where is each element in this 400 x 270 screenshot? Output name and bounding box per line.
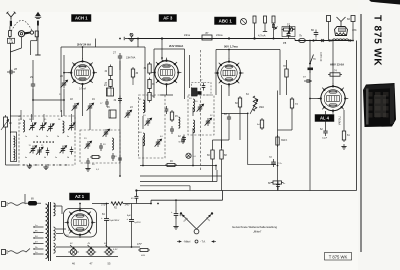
wire IF2 down	[192, 128, 194, 166]
jack pin 2	[263, 16, 267, 32]
dial lamp 55	[104, 245, 118, 266]
jack pin 3	[272, 16, 278, 40]
core coil 26	[107, 106, 116, 118]
wave switch V symbol	[180, 212, 213, 234]
wire contact right down	[31, 37, 37, 55]
resistor 36	[131, 67, 138, 85]
dial lamp 47	[86, 245, 96, 266]
tube ABC1	[215, 59, 244, 88]
tube AL4	[318, 83, 349, 114]
voltage selector wire	[24, 194, 26, 203]
trimmer 29a	[103, 129, 111, 137]
svg-text:T 875 WK: T 875 WK	[372, 15, 383, 66]
wire plate AL4	[332, 84, 334, 87]
svg-text:1MΩ: 1MΩ	[259, 107, 264, 109]
junction	[253, 37, 255, 39]
resistor 34	[105, 65, 113, 78]
svg-text:„Mittel“: „Mittel“	[253, 230, 262, 234]
junction	[321, 39, 323, 41]
svg-text:1b: 1b	[36, 136, 38, 138]
svg-text:H.B.: H.B.	[141, 255, 146, 257]
coil 53	[189, 98, 195, 112]
label 21	[59, 94, 62, 96]
series capacitor 28	[7, 67, 17, 74]
wire	[343, 110, 345, 129]
wire AL4 grid	[309, 98, 320, 100]
legend text	[232, 225, 277, 234]
trimmer 14	[29, 119, 37, 131]
svg-text:6,3V: 6,3V	[113, 249, 118, 251]
svg-text:5b: 5b	[67, 157, 69, 159]
wire	[192, 107, 194, 116]
trimmer 16a	[68, 122, 76, 130]
wire antenna down-lead	[9, 36, 12, 133]
svg-text:13H/7HA: 13H/7HA	[126, 57, 136, 60]
wires into box	[21, 110, 72, 122]
detector cluster	[192, 80, 212, 96]
wire	[221, 161, 223, 191]
resistor 6P	[268, 181, 286, 185]
decoupling network 57/58	[282, 23, 296, 41]
separator rule	[360, 14, 362, 252]
coupling cap 32	[114, 96, 123, 164]
label 24ma	[184, 33, 223, 37]
resistor 71	[276, 135, 288, 147]
svg-text:ACH 1: ACH 1	[75, 16, 88, 21]
choke 76 on rail	[299, 34, 306, 43]
wire ABC1 left pin	[216, 72, 218, 74]
wire	[309, 81, 311, 191]
HT rail	[128, 38, 283, 40]
ground symbol on rail	[124, 33, 139, 47]
svg-text:0,2A: 0,2A	[9, 41, 14, 44]
wire	[212, 161, 214, 182]
wire	[309, 41, 311, 82]
svg-text:70μF/385V: 70μF/385V	[109, 220, 120, 222]
main box bottom edge	[192, 41, 357, 191]
transformer primary	[46, 204, 48, 259]
svg-text:W.Mod: W.Mod	[179, 142, 185, 144]
label 47HA	[258, 33, 266, 37]
resistor 73	[290, 97, 298, 110]
wire	[142, 116, 144, 129]
wire	[206, 50, 208, 96]
wire AF3 top link	[162, 58, 167, 61]
switch contact dots	[33, 141, 54, 143]
wire ABC1 k	[221, 85, 223, 148]
wire	[325, 111, 327, 128]
svg-text:6P: 6P	[268, 182, 271, 185]
resistor 68	[220, 148, 228, 161]
diode lamp symbol	[186, 153, 196, 158]
wire IF1 down	[142, 137, 144, 166]
shield box ACH1 stage	[61, 47, 145, 112]
shield box AF3 stage	[154, 49, 190, 99]
title box T 875 WK	[325, 253, 352, 261]
mains plug 2	[2, 250, 9, 255]
junction X mark	[321, 39, 324, 42]
coil L1	[14, 136, 15, 147]
wire	[213, 122, 230, 140]
wave switch scale	[177, 240, 216, 244]
junction	[161, 37, 163, 39]
mains lead wavy	[8, 203, 26, 206]
cap L2	[179, 135, 186, 144]
label ACH 1	[72, 15, 92, 22]
trimmer 12	[36, 145, 44, 155]
antenna lead blob	[10, 21, 12, 27]
wire rail to ABC1	[228, 50, 230, 60]
tube AF3	[152, 58, 182, 88]
switch 79	[309, 55, 316, 65]
wire	[63, 89, 65, 117]
heater rail bottom	[56, 256, 118, 258]
tube AZ1	[65, 207, 96, 238]
label ABC 1	[215, 17, 237, 25]
dashed box IF input	[80, 130, 120, 163]
wire	[63, 55, 65, 81]
grid stopper cluster	[257, 118, 264, 130]
svg-text:50V 1,7ma: 50V 1,7ma	[224, 45, 238, 49]
label 24ma pos	[0, 0, 1, 1]
label F4TV vertical	[319, 52, 322, 62]
components in IF input box	[84, 138, 115, 161]
svg-text:Gezeichnete Wellenschaltenstel: Gezeichnete Wellenschaltenstellung	[232, 225, 277, 229]
wire avc	[140, 165, 216, 167]
shielded coil det	[192, 88, 202, 96]
wire rail to ACH1	[82, 47, 84, 59]
svg-text:41R: 41R	[65, 235, 69, 237]
b+ riser	[151, 191, 223, 204]
smoothing cap 84	[101, 204, 120, 248]
wire ABC1 down	[228, 84, 230, 96]
cap 42a	[165, 106, 169, 114]
jack pin 1	[253, 16, 256, 40]
speaker terminal right	[349, 39, 354, 42]
svg-text:13%: 13%	[352, 30, 357, 32]
wire left column	[32, 60, 34, 81]
tube ACH1	[68, 58, 97, 90]
svg-text:2b: 2b	[57, 136, 59, 138]
wire	[32, 89, 65, 120]
label 2HV 13 6A	[352, 30, 357, 32]
label P8	[283, 41, 287, 45]
resistor 46	[165, 160, 177, 167]
svg-text:4,7mA: 4,7mA	[258, 33, 266, 37]
ground cap mid	[276, 182, 280, 191]
long vertical wire	[277, 91, 279, 191]
potentiometer 10	[1, 115, 12, 130]
transformer secondary LT1	[54, 227, 56, 241]
wire top az1	[80, 204, 151, 211]
svg-text:-Mittel: -Mittel	[184, 241, 191, 244]
wire	[213, 140, 222, 148]
wire rail to AF3	[161, 39, 163, 59]
svg-text:F4TV 40: F4TV 40	[319, 52, 322, 62]
wire ABC1 L path	[222, 113, 277, 165]
coil 47	[179, 117, 180, 128]
trimmer 12a	[60, 145, 68, 153]
AZ1 mount plate	[64, 209, 97, 238]
svg-text:P8: P8	[283, 41, 287, 45]
mains lead 2 wavy	[8, 249, 30, 254]
transformer secondary HT	[54, 203, 56, 216]
trimmer 50	[195, 101, 204, 112]
nested return wires	[140, 170, 217, 191]
capacitor 62	[320, 128, 328, 140]
heater taps	[54, 246, 57, 248]
svg-text:HRV 13 6A: HRV 13 6A	[330, 63, 344, 67]
trimmer 23	[125, 106, 134, 118]
core coil 24	[104, 84, 114, 96]
trimmer 15a	[47, 123, 55, 131]
wire AF3 left	[153, 72, 156, 74]
label 375V	[101, 202, 107, 206]
resistor 38	[148, 91, 155, 103]
wire	[239, 90, 241, 96]
transformer secondary LT2	[54, 243, 56, 253]
coil 13	[19, 118, 25, 132]
phono jack	[241, 19, 247, 25]
svg-text:24ma: 24ma	[184, 34, 191, 37]
capacitor 80	[311, 28, 318, 41]
resistor 66	[207, 148, 214, 161]
trimmer 44	[155, 136, 164, 147]
svg-text:AF 3: AF 3	[163, 16, 173, 21]
fuse 6A box	[8, 38, 15, 44]
speaker cone symbol	[337, 17, 351, 26]
coil 16	[58, 119, 64, 133]
label 2HV 24 HA	[77, 43, 91, 47]
main bus left extension	[135, 189, 192, 191]
switch S1 contact left	[9, 26, 12, 36]
wire	[55, 245, 57, 247]
capacitor 42	[178, 135, 185, 144]
IF transformer 1 dashed box	[139, 95, 166, 158]
label 50V 1.7ma	[224, 45, 238, 49]
trimmer 15	[39, 119, 47, 131]
coil 41	[139, 99, 145, 113]
label AL 4	[315, 115, 334, 122]
resistor 60	[235, 96, 242, 109]
loudspeaker photo	[363, 83, 396, 127]
capacitor 29	[30, 75, 35, 100]
earth electrode arrow	[35, 12, 41, 19]
svg-text:AL 4: AL 4	[320, 116, 330, 121]
coil L2	[14, 149, 15, 160]
svg-text:8μF: 8μF	[127, 215, 131, 217]
trimmer 18	[70, 98, 79, 111]
jack 76 left	[327, 16, 331, 41]
electrolytic 44	[171, 199, 184, 229]
dashed box wave band coils	[19, 116, 75, 165]
wire ACH1 right	[94, 72, 111, 74]
ground 31a	[27, 164, 32, 169]
junction	[228, 37, 230, 39]
wave switch labels	[183, 217, 211, 223]
svg-text:ABC 1: ABC 1	[219, 18, 233, 23]
speaker pot	[335, 27, 348, 36]
svg-text:- T.A.: - T.A.	[200, 241, 206, 244]
filter resistor R2	[111, 202, 131, 210]
shield dashed vertical	[200, 50, 202, 170]
trimmer 19	[87, 98, 96, 111]
IF transformer 2 dashed box	[188, 95, 214, 135]
wire B+	[92, 222, 104, 224]
wire	[278, 108, 293, 130]
wire AL4 plate	[332, 41, 334, 84]
svg-text:24ma: 24ma	[216, 33, 223, 37]
earth lead blob	[35, 21, 40, 55]
trimmer 11	[29, 145, 38, 154]
svg-text:4b: 4b	[44, 157, 46, 159]
wire AL4 left	[310, 81, 321, 99]
second antenna lead	[9, 50, 11, 110]
svg-text:7Y10kA: 7Y10kA	[338, 116, 342, 125]
resistor 87 on rail	[202, 31, 212, 40]
label AZ 1	[70, 193, 90, 200]
svg-text:2HV 9%HA: 2HV 9%HA	[169, 44, 183, 48]
label AF 3	[159, 15, 177, 22]
wire ACH1 left pin	[63, 72, 71, 74]
capacitor 17	[100, 99, 109, 107]
wire	[95, 39, 97, 48]
ground 31	[85, 158, 95, 171]
cap 49	[131, 191, 138, 204]
fuse 89	[26, 198, 41, 206]
smoothing cap 85	[127, 204, 142, 248]
wire anode AZ1	[54, 206, 63, 214]
wire	[216, 166, 217, 171]
HT rail right segment	[295, 40, 352, 42]
speaker terminal left	[327, 39, 332, 42]
label 7Y10kA vertical	[338, 116, 342, 125]
resistor 51	[137, 243, 150, 257]
resistor 37	[105, 78, 113, 89]
wire rail drop	[94, 39, 96, 48]
jack right	[351, 16, 355, 41]
dial lamp 46	[68, 245, 78, 266]
resistor 61	[342, 129, 350, 142]
svg-text:T 875 WK: T 875 WK	[329, 254, 348, 259]
svg-text:1μ/25V: 1μ/25V	[134, 222, 141, 224]
wire	[229, 107, 240, 140]
capacitor 72 electrolytic	[269, 156, 283, 167]
switch 69	[287, 25, 295, 35]
capacitor 77	[303, 76, 312, 83]
cap row 1	[46, 148, 50, 156]
capacitor 27	[113, 51, 136, 71]
coil 54	[193, 120, 195, 133]
coil labels	[25, 136, 70, 159]
wire	[286, 60, 288, 95]
taps small marks	[33, 226, 34, 254]
mains plug 1	[2, 202, 9, 207]
resistor 74	[328, 70, 342, 77]
dashed arc antenna switch	[11, 20, 32, 31]
bottom dashed dots	[23, 164, 66, 165]
resistor 45	[170, 110, 178, 134]
page corner artifact	[369, 0, 400, 5]
trimmer 20	[60, 74, 68, 88]
wire det bus	[140, 175, 222, 177]
resistor 39	[144, 62, 152, 75]
resistor 78	[283, 65, 288, 79]
junction	[312, 39, 314, 41]
svg-text:394 K: 394 K	[281, 139, 288, 142]
switch S1 rotor	[18, 31, 33, 37]
wire tube AF3 down	[160, 84, 173, 95]
wire	[254, 104, 256, 112]
capacitor 63	[224, 113, 231, 122]
svg-text:12μF: 12μF	[322, 138, 328, 140]
label 2HV 9 HA	[169, 44, 183, 48]
svg-text:340^: 340^	[125, 202, 131, 206]
svg-text:AZ 1: AZ 1	[75, 194, 85, 199]
primary taps	[34, 225, 44, 254]
shield box ABC1 stage	[216, 50, 280, 96]
output transformer secondary	[330, 39, 350, 42]
junction dots rails	[79, 38, 354, 248]
wire	[74, 111, 76, 130]
wire pot down	[6, 116, 22, 165]
wire tube ACH1 down	[82, 84, 84, 116]
transformer core	[49, 202, 51, 261]
heater rail top	[56, 246, 140, 248]
ground AL4	[341, 144, 346, 149]
ground 31b	[43, 165, 48, 170]
coil box left	[11, 132, 17, 162]
capacitor 58a	[308, 68, 314, 74]
AZ1 heater links	[56, 229, 71, 237]
coil 40	[139, 132, 145, 146]
wire	[89, 111, 91, 130]
label 0n7	[96, 169, 100, 171]
svg-text:2HV 24 HA: 2HV 24 HA	[77, 43, 91, 47]
trimmer 52	[205, 115, 214, 126]
trimmer 43	[143, 115, 152, 126]
cap row 2	[70, 147, 74, 155]
wire switch down	[10, 37, 21, 52]
title T 875 WK vertical	[372, 15, 383, 66]
resistor 35	[148, 78, 155, 91]
wire	[119, 61, 121, 177]
lamp labels	[70, 243, 107, 245]
switch S1 contact right	[35, 26, 38, 37]
potentiometer 64	[246, 93, 264, 114]
antenna A1	[6, 12, 16, 20]
label HRV 13 6A	[330, 63, 344, 67]
